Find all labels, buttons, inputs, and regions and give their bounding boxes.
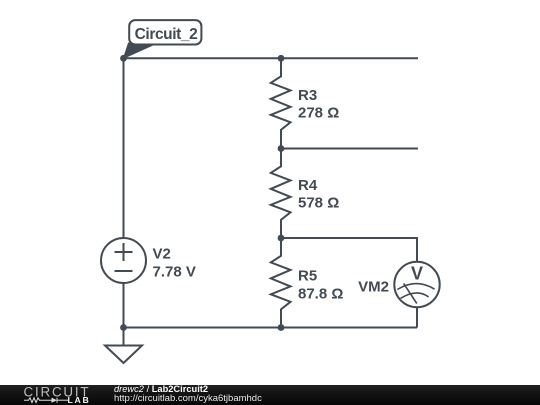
node junction dot R4/R5: [278, 235, 285, 242]
svg-text:578 Ω: 578 Ω: [298, 195, 339, 212]
resistor R5: [271, 238, 291, 328]
voltmeter VM2: [394, 262, 439, 307]
credits text line 1: [114, 385, 208, 395]
svg-text:7.78 V: 7.78 V: [153, 264, 196, 281]
wire to voltmeter top: [281, 238, 417, 262]
svg-text:VM2: VM2: [358, 279, 389, 296]
wire voltmeter bottom: [416, 307, 418, 327]
resistor R3: [271, 58, 291, 148]
svg-text:R3: R3: [298, 87, 317, 104]
svg-text:R5: R5: [298, 268, 317, 285]
wire V2 bottom: [123, 283, 125, 328]
wire left vertical: [123, 58, 125, 238]
node junction dot bottom R5: [278, 324, 285, 331]
node junction dot R3/R4: [278, 145, 285, 152]
svg-text:Circuit_2: Circuit_2: [135, 26, 198, 43]
resistor R4: [271, 149, 291, 239]
ground: [105, 328, 142, 364]
svg-text:R4: R4: [298, 177, 318, 194]
footer bar: [0, 385, 540, 405]
node junction dot bottom-left: [120, 324, 127, 331]
svg-text:V: V: [411, 264, 423, 284]
svg-text:V2: V2: [153, 246, 171, 263]
node A junction dot top-left: [120, 55, 127, 62]
voltage source V2: [101, 238, 146, 283]
credits text line 2: [114, 394, 262, 404]
wire mid horizontal: [281, 148, 418, 150]
circuitlab logo: [23, 385, 95, 405]
label Circuit_2 callout: [124, 20, 202, 58]
svg-text:278 Ω: 278 Ω: [298, 105, 339, 122]
svg-text:87.8 Ω: 87.8 Ω: [298, 286, 343, 303]
wire top horizontal: [124, 57, 419, 59]
node junction dot top R3: [278, 55, 285, 62]
svg-text:LAB: LAB: [68, 395, 91, 405]
wire bottom horizontal: [124, 327, 418, 329]
